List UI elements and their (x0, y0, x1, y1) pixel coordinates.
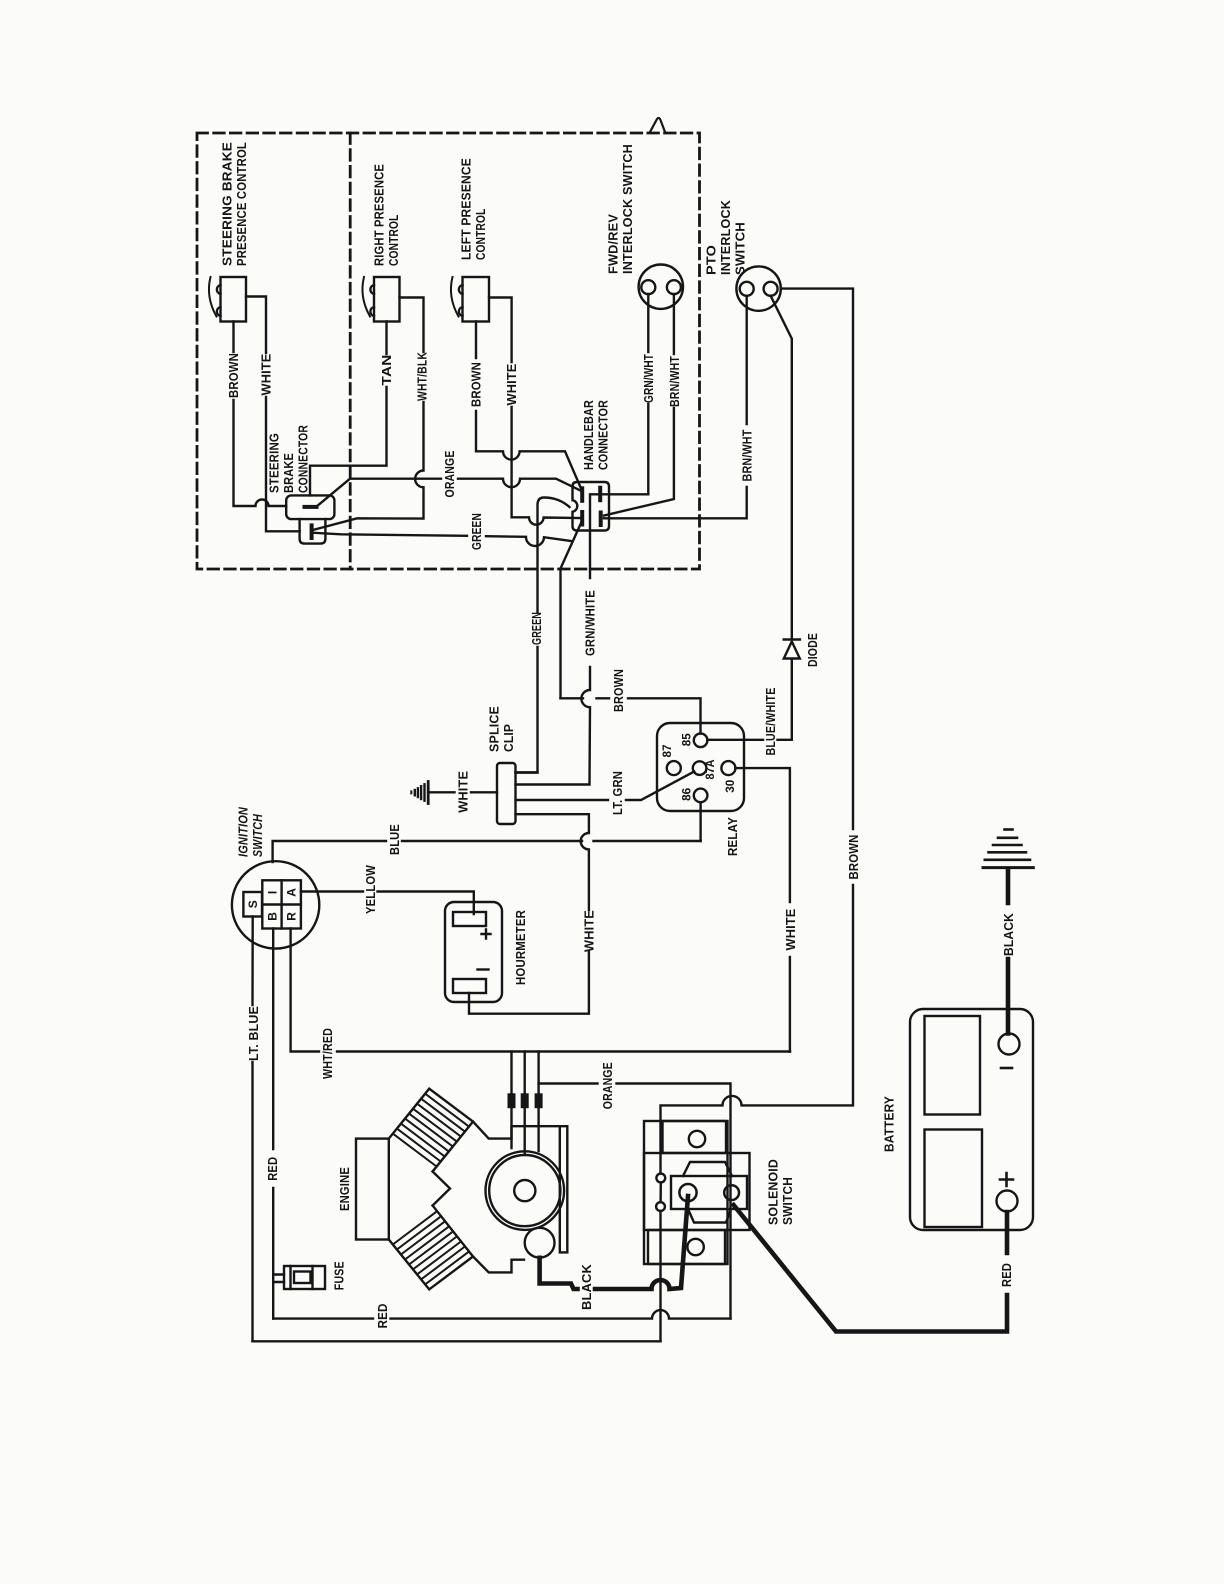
wire from relay 86 to blue wire (699, 802, 701, 841)
svg-text:BLACK: BLACK (1001, 913, 1016, 956)
svg-text:PRESENCE CONTROL: PRESENCE CONTROL (234, 142, 249, 266)
wire BLACK engine to solenoid (540, 1196, 688, 1289)
engine bottom outline (473, 1257, 524, 1273)
svg-text:WHITE: WHITE (783, 908, 798, 950)
relay pin 86 (694, 789, 708, 803)
svg-text:SWITCH: SWITCH (733, 222, 748, 275)
svg-text:STEERING BRAKE: STEERING BRAKE (220, 142, 235, 266)
svg-text:WHITE: WHITE (456, 771, 471, 813)
engine mount plate (560, 1126, 568, 1252)
wire GREEN splice elbow (516, 771, 538, 773)
svg-text:CONTROL: CONTROL (386, 215, 401, 267)
engine kill wire 1 (510, 1052, 512, 1149)
relay pin 85 (694, 734, 708, 748)
svg-text:86: 86 (680, 788, 694, 801)
svg-text:R: R (285, 912, 299, 921)
svg-text:TAN: TAN (379, 355, 394, 386)
battery plus sign (1000, 1173, 1013, 1186)
wire ORANGE engine to solenoid (539, 1084, 731, 1319)
right presence control switch S2 (362, 277, 399, 322)
dashed divider line (349, 133, 352, 569)
svg-text:87: 87 (660, 744, 674, 757)
wire GREEN inside box (314, 533, 572, 546)
wire WHITE splice to ground (428, 791, 497, 793)
steering brake connector stem pin slot (310, 525, 314, 538)
steering brake connector top pin slot (305, 505, 317, 509)
svg-text:BROWN: BROWN (846, 835, 861, 880)
wire GRN/WHITE handlebar to splice (516, 494, 600, 784)
svg-text:BRAKE: BRAKE (281, 453, 296, 493)
svg-text:SWITCH: SWITCH (780, 1177, 795, 1225)
svg-text:WHITE: WHITE (504, 363, 519, 405)
engine upper fins (393, 1094, 469, 1167)
wire RED battery positive to solenoid (734, 1205, 1007, 1332)
wire LT. GRN splice to relay 87A (516, 772, 695, 801)
wire BLACK battery negative to ground (1006, 871, 1011, 1034)
svg-text:WHT/BLK: WHT/BLK (415, 352, 430, 401)
left presence control switch S3 (451, 277, 489, 322)
svg-text:BROWN: BROWN (469, 362, 484, 407)
svg-text:RED: RED (265, 1157, 280, 1181)
svg-text:PTO: PTO (704, 245, 719, 275)
svg-text:LT. GRN: LT. GRN (610, 771, 625, 815)
wire BROWN right from pto (661, 289, 854, 1174)
ignition switch (232, 861, 319, 948)
svg-text:RED: RED (375, 1303, 390, 1328)
svg-text:S: S (246, 900, 260, 908)
wire ORANGE steering brake to handlebar (317, 479, 582, 507)
svg-text:ORANGE: ORANGE (600, 1062, 615, 1109)
svg-text:LT. BLUE: LT. BLUE (246, 1006, 261, 1061)
engine upper cylinder outline (389, 1089, 473, 1172)
wire diode branch from pto (707, 296, 792, 740)
hourmeter M1 (445, 902, 502, 1002)
battery positive terminal (997, 1191, 1018, 1212)
engine block (356, 1089, 567, 1290)
hourmeter minus sign (478, 968, 489, 970)
svg-text:INTERLOCK SWITCH: INTERLOCK SWITCH (620, 144, 635, 274)
svg-text:YELLOW: YELLOW (363, 865, 378, 914)
handlebar connector pin BR (599, 513, 603, 526)
steering brake presence control switch S1 (209, 277, 246, 322)
svg-text:SWITCH: SWITCH (250, 814, 265, 857)
engine center chevron (433, 1172, 450, 1206)
battery (910, 1009, 1033, 1230)
diode D1 (784, 640, 800, 659)
svg-text:BROWN: BROWN (611, 669, 626, 712)
wire from relay 30 WHITE (735, 768, 790, 1051)
svg-text:87A: 87A (703, 759, 717, 779)
svg-text:BLUE/WHITE: BLUE/WHITE (763, 687, 778, 755)
wire WHITE splice to hourmeter (469, 814, 589, 1014)
handlebar connector pin TR (598, 488, 602, 501)
wire GRN/WHT from fwd/rev (602, 294, 649, 494)
solenoid switch body (644, 1121, 750, 1264)
svg-text:IGNITION: IGNITION (236, 807, 251, 857)
wire BROWN to relay 85 (561, 698, 701, 733)
relay pin 87A (693, 761, 707, 775)
solenoid coil terminal lower (656, 1202, 665, 1211)
svg-text:LEFT PRESENCE: LEFT PRESENCE (459, 158, 474, 260)
svg-text:A: A (285, 888, 299, 897)
wire WHITE from S1 (246, 297, 300, 532)
wire BRN/WHT from pto (604, 296, 747, 519)
wire BROWN from S1 (234, 322, 287, 507)
wire GREEN handlebar notch to splice (516, 498, 570, 773)
svg-text:WHITE: WHITE (582, 910, 597, 952)
chassis ground symbol (983, 830, 1033, 868)
svg-text:85: 85 (680, 733, 694, 746)
engine lower fins (393, 1212, 469, 1285)
relay K1 body (657, 723, 744, 811)
svg-text:ORANGE: ORANGE (442, 450, 457, 497)
svg-text:30: 30 (723, 779, 737, 792)
svg-text:ENGINE: ENGINE (337, 1167, 352, 1211)
svg-text:WHITE: WHITE (259, 353, 274, 395)
svg-text:BLUE: BLUE (387, 824, 402, 855)
wire WHT/BLK from S2 (314, 298, 424, 530)
svg-text:I: I (266, 891, 280, 894)
handlebar connector pin TL (580, 488, 584, 501)
svg-text:BRN/WHT: BRN/WHT (740, 430, 755, 482)
wire bottom lt.blue to solenoid (253, 1340, 661, 1342)
engine starter boss circle (525, 1228, 555, 1258)
wire LT. BLUE ignition S down (251, 917, 254, 1342)
wire WHT/RED ignition R to engine (291, 929, 790, 1052)
svg-text:CONTROL: CONTROL (473, 209, 488, 261)
svg-text:CONNECTOR: CONNECTOR (296, 425, 311, 493)
svg-text:RELAY: RELAY (725, 817, 740, 856)
battery negative terminal (999, 1034, 1020, 1055)
svg-text:HANDLEBAR: HANDLEBAR (581, 400, 596, 470)
solenoid main terminal right (724, 1185, 739, 1200)
svg-text:INTERLOCK: INTERLOCK (718, 200, 733, 275)
wire BROWN from S3 (476, 322, 582, 490)
svg-text:SOLENOID: SOLENOID (766, 1159, 781, 1225)
wire WHITE relay 30 to engine junction (789, 1050, 791, 1052)
solenoid coil terminal upper (656, 1174, 665, 1183)
wire TAN from S2 (310, 322, 387, 496)
wire RED ignition B to fuse (273, 929, 284, 1319)
wire RED fuse to solenoid (273, 1310, 730, 1319)
tick mark above box (650, 118, 665, 132)
svg-text:B: B (266, 912, 280, 921)
svg-text:BRN/WHT: BRN/WHT (667, 356, 682, 407)
svg-text:RIGHT PRESENCE: RIGHT PRESENCE (372, 164, 387, 266)
svg-text:SPLICE: SPLICE (487, 706, 502, 752)
svg-text:GRN/WHITE: GRN/WHITE (583, 590, 598, 656)
pto interlock switch connector (736, 266, 780, 310)
wire WHITE right section (789, 1050, 791, 1052)
wire BRN/WHT from fwd/rev (604, 294, 674, 516)
wire WHITE from S3 (489, 298, 581, 525)
wire harness from handlebar BL to relay area (561, 522, 582, 698)
engine top outline (473, 1122, 560, 1139)
svg-text:CLIP: CLIP (501, 724, 516, 752)
hourmeter plus sign (482, 930, 491, 939)
handlebar connector body (573, 482, 610, 531)
engine lower cylinder outline (389, 1206, 473, 1290)
svg-text:BLACK: BLACK (579, 1264, 594, 1310)
ground at splice clip (411, 782, 428, 804)
svg-text:WHT/RED: WHT/RED (320, 1028, 335, 1079)
steering brake connector body (286, 495, 334, 543)
svg-text:BATTERY: BATTERY (882, 1096, 897, 1152)
dashed interlock enclosure box (197, 133, 700, 569)
engine flywheel (486, 1151, 565, 1230)
wire BLUE ignition to relay 86 (273, 841, 701, 862)
svg-text:GRN/WHT: GRN/WHT (641, 354, 656, 403)
fwd/rev interlock switch connector (639, 265, 683, 309)
handlebar connector pin BL (580, 512, 584, 525)
splice clip (497, 763, 516, 824)
svg-text:GREEN: GREEN (529, 612, 544, 645)
engine kill wire 3 (537, 1052, 539, 1152)
svg-text:STEERING: STEERING (267, 433, 282, 493)
svg-text:CONNECTOR: CONNECTOR (596, 400, 611, 470)
solenoid main terminal left (679, 1184, 696, 1201)
battery minus sign (1001, 1067, 1012, 1070)
relay pin 87 (667, 761, 681, 775)
wire YELLOW ignition A to hourmeter (301, 892, 474, 915)
svg-text:GREEN: GREEN (469, 513, 484, 550)
wire solenoid coil terminals to bottom (659, 1182, 662, 1341)
svg-text:DIODE: DIODE (805, 633, 820, 667)
svg-text:RED: RED (999, 1263, 1014, 1287)
svg-text:BROWN: BROWN (226, 353, 241, 398)
svg-text:FWD/REV: FWD/REV (606, 214, 621, 274)
svg-text:FUSE: FUSE (332, 1261, 347, 1290)
relay pin 30 (721, 761, 735, 775)
engine kill wire 2 (524, 1052, 526, 1154)
fuse F1 (284, 1266, 325, 1289)
svg-text:HOURMETER: HOURMETER (513, 910, 528, 985)
